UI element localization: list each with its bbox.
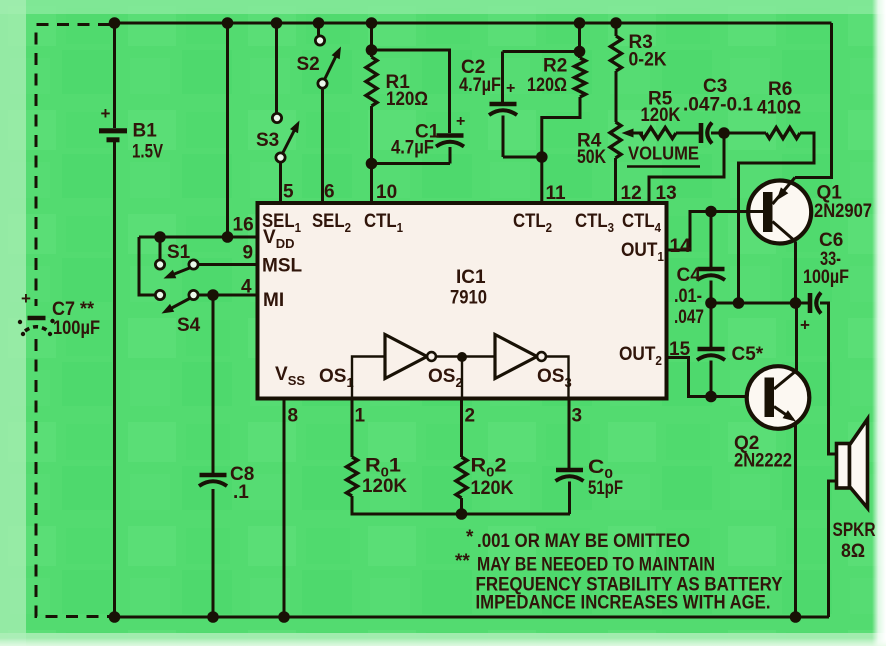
svg-text:+: + bbox=[800, 316, 810, 335]
label: OUT2 pin name bbox=[619, 344, 662, 368]
switch S1 bbox=[155, 241, 257, 279]
svg-text:1: 1 bbox=[355, 406, 366, 427]
label: Vss pin name bbox=[275, 364, 305, 388]
wire: inverter A out to inverter B in bbox=[436, 355, 495, 357]
svg-text:7910: 7910 bbox=[450, 288, 487, 309]
wire: R4 to pin 12 bbox=[614, 158, 617, 204]
capacitor C7 (dotted optional cap on dashed return) bbox=[18, 289, 100, 339]
resistor R6 bbox=[724, 79, 801, 139]
resistor R02 bbox=[456, 456, 514, 500]
label: OS pin names bbox=[319, 366, 572, 390]
speaker SPKR 8 ohm bbox=[833, 419, 876, 562]
capacitor C1 bbox=[391, 113, 465, 164]
label: pin numbers bottom bbox=[288, 406, 583, 427]
wire: Q2 collector up to node A bbox=[795, 303, 798, 371]
svg-text:4: 4 bbox=[241, 277, 252, 298]
svg-text:S4: S4 bbox=[177, 315, 201, 336]
svg-text:VOLUME: VOLUME bbox=[628, 143, 699, 164]
wire: R2 branch from bus bbox=[503, 23, 580, 58]
capacitor C6 bbox=[800, 230, 849, 335]
node: Q1 base node bbox=[705, 206, 717, 218]
resistor R1 bbox=[366, 57, 428, 110]
wire: S2 to pin 6 bbox=[321, 88, 324, 204]
svg-text:120K: 120K bbox=[641, 105, 681, 126]
wire: Q2 emitter down to bottom bus bbox=[794, 422, 797, 618]
node: MI junction bbox=[207, 289, 219, 301]
wire: Q1 collector down to node A bbox=[794, 242, 797, 304]
svg-text:S1: S1 bbox=[167, 242, 191, 263]
wire: pin 1 to R01 bbox=[351, 399, 354, 458]
label: VOLUME bbox=[627, 143, 700, 167]
svg-text:9: 9 bbox=[243, 243, 254, 264]
wire: pin 8 Vss to bus bbox=[283, 399, 286, 618]
capacitor C0 bbox=[556, 457, 624, 514]
svg-text:+: + bbox=[21, 289, 31, 308]
node: R2 branch junctions bbox=[574, 17, 586, 57]
wire: oscillator RC common rail bbox=[352, 496, 570, 514]
wire: R3 from bus bbox=[615, 23, 618, 36]
svg-text:**: ** bbox=[455, 551, 470, 572]
wire: bottom return bus bbox=[113, 616, 829, 619]
wire: Vdd feed from bus to pin 16 bbox=[139, 23, 258, 295]
svg-text:120K: 120K bbox=[362, 476, 407, 497]
svg-text:410Ω: 410Ω bbox=[757, 98, 801, 119]
wire: top bus right corner down to Q1 emitter bbox=[795, 23, 832, 178]
svg-text:12: 12 bbox=[621, 183, 642, 204]
transistor Q2 2N2222 (NPN) bbox=[734, 366, 809, 471]
capacitor C4 bbox=[674, 212, 725, 329]
svg-text:3: 3 bbox=[572, 406, 583, 427]
label: OUT1 pin name bbox=[621, 240, 664, 264]
node: Q2 base node bbox=[705, 391, 717, 403]
svg-text:SPKR: SPKR bbox=[833, 520, 876, 541]
switch S2 bbox=[297, 36, 342, 88]
svg-text:C5*: C5* bbox=[732, 344, 764, 365]
svg-text:120Ω: 120Ω bbox=[386, 89, 428, 110]
wire: S2 feed from bus bbox=[317, 23, 320, 36]
svg-text:13: 13 bbox=[656, 183, 677, 204]
node: R1/C1 bottom junction bbox=[366, 158, 378, 170]
node: R3 to bus bbox=[610, 17, 622, 29]
svg-text:120Ω: 120Ω bbox=[527, 75, 567, 96]
svg-text:8Ω: 8Ω bbox=[841, 541, 865, 562]
label: pin numbers right bbox=[669, 236, 691, 360]
svg-text:15: 15 bbox=[669, 339, 691, 360]
svg-text:IMPEDANCE INCREASES WITH AGE.: IMPEDANCE INCREASES WITH AGE. bbox=[476, 593, 771, 614]
svg-text:100µF: 100µF bbox=[803, 267, 849, 288]
wire: battery branch bbox=[113, 23, 116, 617]
svg-text:11: 11 bbox=[546, 183, 567, 204]
label: footnote ** bbox=[455, 551, 783, 614]
inverter A bbox=[385, 335, 436, 379]
wire: S3 to pin 5 bbox=[279, 162, 282, 204]
resistor R5 bbox=[640, 89, 700, 139]
svg-text:C7 **: C7 ** bbox=[52, 299, 95, 320]
inverter B bbox=[495, 335, 546, 379]
label: footnote * bbox=[466, 527, 690, 552]
svg-text:MI: MI bbox=[263, 290, 284, 311]
capacitor C8 bbox=[199, 464, 254, 617]
wire: R1/C1 bottom to pin 10 bbox=[372, 106, 451, 204]
svg-text:8: 8 bbox=[288, 406, 299, 427]
label: Vdd pin name bbox=[263, 227, 294, 251]
node: R1 branch junctions bbox=[366, 17, 378, 56]
svg-text:+: + bbox=[506, 80, 515, 97]
svg-text:4.7µF: 4.7µF bbox=[391, 138, 434, 159]
svg-text:2: 2 bbox=[465, 406, 476, 427]
wire: collector node A rail bbox=[711, 302, 810, 305]
node: node A junctions bbox=[705, 297, 801, 309]
node: Vdd junctions bbox=[154, 17, 233, 243]
svg-text:6: 6 bbox=[324, 182, 335, 203]
svg-text:14: 14 bbox=[670, 236, 692, 257]
svg-text:.1: .1 bbox=[233, 482, 249, 503]
svg-text:2N2222: 2N2222 bbox=[734, 451, 792, 472]
wire: S3 feed from bus bbox=[275, 23, 278, 113]
label: IC pin names (top row) bbox=[262, 211, 662, 235]
switch S3 bbox=[256, 113, 300, 162]
wire: R3 to R4 bbox=[615, 71, 618, 122]
svg-text:R2: R2 bbox=[543, 56, 567, 77]
svg-text:*: * bbox=[466, 527, 474, 548]
wire: speaker bottom terminal to bus bbox=[829, 481, 837, 617]
wire: R1/C1 branch top bbox=[372, 23, 450, 133]
node: OS2 tap bbox=[457, 352, 467, 398]
node: S3 to bus bbox=[271, 17, 283, 29]
svg-text:10: 10 bbox=[376, 182, 397, 203]
svg-text:IC1: IC1 bbox=[456, 267, 486, 288]
svg-text:C6: C6 bbox=[819, 230, 843, 251]
op-amp/IC body IC1 7910 bbox=[258, 203, 667, 399]
wire: OUT1 (pin 14) to Q1 base bbox=[667, 212, 712, 251]
wire: R6 right end down to collector node A bbox=[739, 133, 815, 303]
capacitor C5 bbox=[697, 303, 764, 397]
label: MI pin name bbox=[263, 290, 284, 311]
svg-text:.001 OR MAY BE OMITTEO: .001 OR MAY BE OMITTEO bbox=[477, 531, 690, 552]
switch S4 bbox=[155, 290, 257, 336]
resistor R3 bbox=[611, 32, 667, 71]
svg-text:+: + bbox=[101, 104, 111, 123]
transistor Q1 2N2907 (PNP) bbox=[711, 178, 872, 244]
battery B1 bbox=[99, 104, 163, 163]
svg-text:MAY BE NEEOED TO MAINTAIN: MAY BE NEEOED TO MAINTAIN bbox=[477, 555, 715, 576]
svg-text:B1: B1 bbox=[133, 121, 158, 142]
svg-text:1.5V: 1.5V bbox=[132, 142, 163, 163]
svg-text:.047: .047 bbox=[674, 307, 704, 328]
label: MSL pin name bbox=[262, 256, 303, 277]
wire: OUT2 (pin 15) to Q2 base bbox=[667, 358, 765, 397]
wire: pin 3 to C0 bbox=[568, 399, 571, 469]
svg-text:C4: C4 bbox=[677, 265, 702, 286]
svg-text:.01-: .01- bbox=[674, 286, 702, 307]
wire: dashed negative return (left below C7) bbox=[36, 339, 113, 617]
wire: CTL4 (pin 13) to C3/R6 node bbox=[649, 133, 724, 204]
svg-text:0-2K: 0-2K bbox=[629, 50, 667, 71]
svg-text:5: 5 bbox=[283, 182, 294, 203]
svg-text:120K: 120K bbox=[471, 478, 514, 499]
svg-text:51pF: 51pF bbox=[588, 478, 623, 499]
wire: C6 to speaker top terminal bbox=[820, 303, 837, 454]
wire: top +V supply bus bbox=[110, 22, 832, 25]
svg-text:4.7µF: 4.7µF bbox=[459, 75, 501, 96]
node: bottom bus junctions bbox=[109, 611, 802, 623]
svg-text:100µF: 100µF bbox=[53, 318, 100, 339]
wire: R2/C2 bottom to pin 11 bbox=[503, 97, 580, 204]
wire: dashed negative return (top-left corner) bbox=[36, 25, 110, 307]
svg-text:.047-0.1: .047-0.1 bbox=[683, 95, 753, 116]
label: pin numbers top bbox=[283, 182, 677, 205]
svg-text:S3: S3 bbox=[256, 130, 279, 151]
node: R2/C2 bottom junction bbox=[536, 151, 548, 163]
capacitor C3 bbox=[683, 76, 753, 144]
wire: pin 2 to R02 bbox=[460, 399, 463, 458]
svg-text:2N2907: 2N2907 bbox=[814, 201, 872, 222]
node: C3/R6/CTL4 junction bbox=[718, 127, 730, 139]
svg-text:+: + bbox=[456, 113, 465, 130]
svg-text:16: 16 bbox=[233, 215, 254, 236]
node: battery to top bus bbox=[109, 17, 121, 29]
wire: inverter B out to OS3 bbox=[546, 357, 569, 399]
capacitor C2 bbox=[459, 52, 517, 158]
wire: S4/MI branch down to C8 bbox=[212, 295, 215, 473]
resistor R01 bbox=[347, 456, 408, 498]
wire: OS1 to inverter A input bbox=[352, 357, 385, 399]
potentiometer R4 (volume) bbox=[577, 122, 643, 168]
label: pin numbers left bbox=[233, 215, 254, 298]
svg-text:50K: 50K bbox=[577, 147, 606, 168]
node: S2 to bus bbox=[313, 17, 325, 29]
svg-text:S2: S2 bbox=[297, 54, 320, 75]
svg-text:MSL: MSL bbox=[262, 256, 303, 277]
node: R02 to rail bbox=[456, 498, 468, 520]
resistor R2 bbox=[527, 56, 586, 98]
